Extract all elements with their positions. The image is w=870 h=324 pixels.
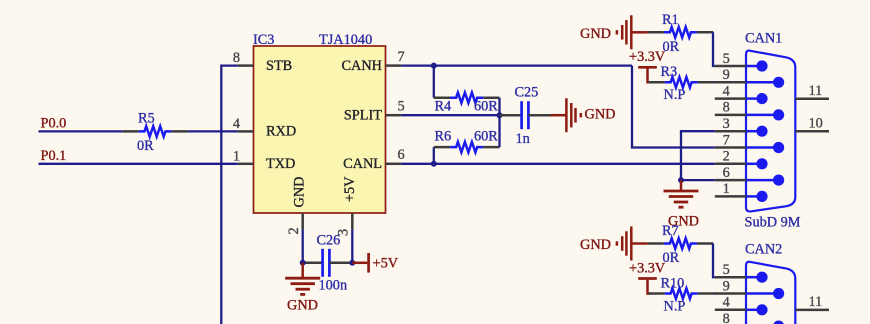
svg-text:TJA1040: TJA1040 xyxy=(319,32,372,48)
svg-text:R6: R6 xyxy=(435,129,452,145)
svg-text:N.P: N.P xyxy=(664,298,686,314)
svg-text:R10: R10 xyxy=(661,275,685,291)
node junction SPLIT R4 R6 C25 xyxy=(497,112,503,118)
pin 9 contact of CAN1 xyxy=(746,81,779,84)
svg-text:P0.1: P0.1 xyxy=(41,148,67,164)
pin 8 stub of IC3 xyxy=(238,64,254,67)
svg-text:C25: C25 xyxy=(515,84,539,100)
pin 1 stub of CAN1 xyxy=(715,195,746,198)
wire CANL from pin 6 to CAN1 pin 2 xyxy=(401,163,715,165)
svg-text:11: 11 xyxy=(809,294,823,310)
svg-text:8: 8 xyxy=(723,311,730,324)
wire R4 down to SPLIT node xyxy=(498,98,500,116)
capacitor C25 xyxy=(520,101,523,129)
wire R5 to RXD pin 4 xyxy=(188,130,238,132)
resistor R3 xyxy=(648,81,664,84)
svg-text:8: 8 xyxy=(233,50,240,66)
svg-text:5: 5 xyxy=(723,51,730,67)
svg-text:CAN1: CAN1 xyxy=(745,31,782,47)
svg-text:11: 11 xyxy=(809,83,823,99)
node junction C26 left xyxy=(300,260,306,266)
resistor R6 xyxy=(434,146,450,149)
pin 2 stub of IC3 xyxy=(301,213,304,229)
svg-text:1n: 1n xyxy=(516,131,530,147)
pin 5 contact of CAN2 xyxy=(746,276,762,279)
ground symbol below C26 xyxy=(285,277,320,280)
pin 5 stub of CAN1 xyxy=(715,65,746,68)
wire SPLIT from pin 5 to node xyxy=(401,114,499,116)
resistor R4 xyxy=(434,96,450,99)
wire ground to R7 xyxy=(632,242,647,245)
capacitor C26 left lead xyxy=(303,262,323,265)
svg-text:7: 7 xyxy=(723,132,730,148)
wire R10 to CAN2 pin 9 xyxy=(714,292,717,294)
pin 11 stub of CAN2 xyxy=(795,309,829,312)
capacitor C25 left lead xyxy=(500,114,522,117)
svg-text:R7: R7 xyxy=(662,223,679,239)
capacitor C26 right lead xyxy=(329,262,352,265)
wire CANH junction down to R4 xyxy=(433,66,435,98)
svg-text:5: 5 xyxy=(723,262,730,278)
wire junction down to ground xyxy=(680,180,683,190)
svg-text:GND: GND xyxy=(292,177,308,208)
svg-text:R3: R3 xyxy=(661,64,678,80)
node junction CAN1 pin6 gnd xyxy=(678,177,684,183)
wire pin 3 down to junction xyxy=(351,229,353,262)
pin 2 stub of CAN1 xyxy=(715,163,746,166)
pin 1 contact of CAN1 xyxy=(746,195,762,198)
pin 7 contact of CAN1 xyxy=(746,146,779,149)
svg-text:2: 2 xyxy=(723,149,730,165)
svg-text:+5V: +5V xyxy=(342,176,358,202)
svg-text:3: 3 xyxy=(723,116,730,132)
svg-text:IC3: IC3 xyxy=(253,32,274,48)
svg-text:SPLIT: SPLIT xyxy=(344,108,382,124)
op-amp IC3 TJA1040 body xyxy=(254,46,386,213)
power symbol +3.3V top xyxy=(638,66,657,69)
resistor R7 xyxy=(648,242,664,245)
capacitor C26 xyxy=(321,249,324,277)
resistor R10 xyxy=(648,292,664,295)
svg-text:0R: 0R xyxy=(137,138,154,154)
svg-text:GND: GND xyxy=(585,106,616,122)
wire CANH vertical down to CAN1 pin 7 row xyxy=(632,66,715,148)
svg-text:R4: R4 xyxy=(435,98,452,114)
wire R7 down to CAN2 pin 5 xyxy=(713,244,715,278)
pin 4 contact of CAN1 xyxy=(746,97,762,100)
wire CANH from pin 7 to corner xyxy=(401,64,632,66)
wire STB pin 8 down off page xyxy=(221,66,237,324)
svg-text:C26: C26 xyxy=(317,233,341,249)
wire pin 2 down to junction xyxy=(302,229,304,262)
pin 3 stub of CAN1 xyxy=(715,130,746,133)
pin 4 stub of IC3 xyxy=(238,130,254,133)
pin 6 stub of IC3 xyxy=(386,163,402,166)
svg-text:1: 1 xyxy=(233,148,240,164)
pin 11 stub of CAN1 xyxy=(795,97,829,100)
wire junction down to ground xyxy=(301,263,304,278)
svg-text:6: 6 xyxy=(723,165,730,181)
svg-text:GND: GND xyxy=(580,237,611,253)
svg-text:9: 9 xyxy=(723,278,730,294)
pin 2 contact of CAN1 xyxy=(746,163,762,166)
pin 4 contact of CAN2 xyxy=(746,309,762,312)
pin 8 contact of CAN1 xyxy=(746,114,779,117)
pin 9 stub of CAN2 xyxy=(715,292,746,295)
svg-text:4: 4 xyxy=(723,83,730,99)
svg-text:7: 7 xyxy=(398,49,405,65)
ground symbol at R1 xyxy=(630,15,633,49)
node junction CANH to R4 xyxy=(431,63,437,69)
wire R3 to CAN1 pin 9 xyxy=(714,81,717,83)
svg-text:GND: GND xyxy=(287,297,318,313)
pin 6 contact of CAN1 xyxy=(746,179,779,182)
svg-text:4: 4 xyxy=(233,116,240,132)
wire R1 down to CAN1 pin 5 xyxy=(713,32,715,66)
svg-text:4: 4 xyxy=(723,295,730,311)
svg-text:STB: STB xyxy=(266,58,292,74)
svg-text:N.P: N.P xyxy=(664,87,686,103)
svg-text:8: 8 xyxy=(723,100,730,116)
svg-text:2: 2 xyxy=(286,227,302,234)
pin 9 stub of CAN1 xyxy=(715,81,746,84)
pin 1 stub of IC3 xyxy=(238,163,254,166)
pin 6 stub of CAN1 xyxy=(715,179,746,182)
pin 7 stub of CAN1 xyxy=(715,146,746,149)
capacitor C25 right lead xyxy=(528,114,550,117)
ground symbol at R7 xyxy=(630,227,633,261)
svg-text:SubD 9M: SubD 9M xyxy=(745,215,801,231)
resistor R5 xyxy=(122,130,138,133)
svg-text:100n: 100n xyxy=(319,278,348,294)
svg-text:9: 9 xyxy=(723,67,730,83)
pin 5 stub of IC3 xyxy=(386,114,402,117)
svg-text:+5V: +5V xyxy=(373,256,399,272)
svg-text:60R: 60R xyxy=(474,98,498,114)
wire ground to R1 xyxy=(632,31,647,34)
wire junction to +5V xyxy=(352,262,367,265)
pin 9 contact of CAN2 xyxy=(746,292,779,295)
wire CAN1 pin3 to pin6 gnd vertical xyxy=(681,131,715,180)
node junction CANL to R6 xyxy=(431,161,437,167)
svg-text:10: 10 xyxy=(809,116,823,132)
resistor R1 xyxy=(648,31,664,34)
svg-text:P0.0: P0.0 xyxy=(41,116,67,132)
svg-text:CANH: CANH xyxy=(341,58,382,74)
svg-text:CANL: CANL xyxy=(343,156,382,172)
svg-text:6: 6 xyxy=(398,147,405,163)
svg-text:+3.3V: +3.3V xyxy=(629,49,666,65)
power symbol +3.3V bottom xyxy=(638,277,657,280)
svg-text:1: 1 xyxy=(723,181,730,197)
power symbol +5V xyxy=(367,253,370,273)
wire CANL junction up to R6 xyxy=(433,147,435,164)
pin 4 stub of CAN2 xyxy=(715,309,746,312)
svg-text:TXD: TXD xyxy=(266,156,295,172)
ground symbol at C25 xyxy=(565,98,568,132)
pin 5 contact of CAN1 xyxy=(746,65,762,68)
wire C25 to ground lead xyxy=(551,114,567,117)
svg-text:RXD: RXD xyxy=(266,124,296,140)
pin 4 stub of CAN1 xyxy=(715,97,746,100)
wire R6 up to SPLIT node xyxy=(498,115,500,147)
connector CAN2 SubD 9M body xyxy=(746,262,795,324)
svg-text:+3.3V: +3.3V xyxy=(629,260,666,276)
wire P0.1 to TXD pin 1 xyxy=(39,163,238,165)
pin 8 stub of CAN1 xyxy=(715,114,746,117)
svg-text:5: 5 xyxy=(398,99,405,115)
svg-text:60R: 60R xyxy=(474,129,498,145)
node junction C26 right xyxy=(349,260,355,266)
pin 3 contact of CAN1 xyxy=(746,130,762,133)
svg-text:R5: R5 xyxy=(138,110,155,126)
connector CAN1 SubD 9M body xyxy=(746,51,795,212)
pin 7 stub of IC3 xyxy=(386,64,402,67)
svg-text:R1: R1 xyxy=(662,12,679,28)
pin 5 stub of CAN2 xyxy=(715,276,746,279)
ground symbol below CAN1 xyxy=(664,190,699,193)
pin 10 stub of CAN1 xyxy=(795,130,829,133)
svg-text:CAN2: CAN2 xyxy=(745,242,782,258)
svg-text:GND: GND xyxy=(580,26,611,42)
pin 3 stub of IC3 xyxy=(351,213,354,229)
wire P0.0 to R5 xyxy=(39,130,123,132)
